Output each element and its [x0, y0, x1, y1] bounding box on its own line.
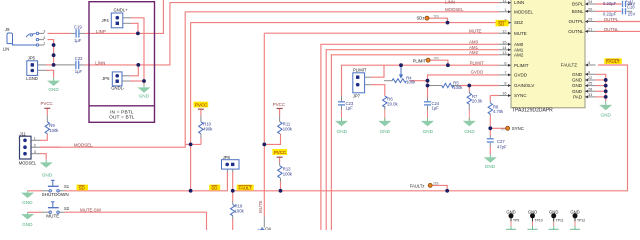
resistor R7 20.0k: [467, 93, 471, 104]
lead C22 left: [56, 64, 75, 66]
lead JP8 right pin drop: [232, 169, 234, 172]
wire LINP from C19 to corner riser x163.4, through purple box: [85, 0, 164, 33]
svg-text:21: 21: [588, 28, 592, 32]
lead MUTE riser to Q4: [263, 217, 265, 228]
svg-text:OUTPL: OUTPL: [568, 19, 584, 24]
power symbol PVCC (R11): [277, 108, 283, 110]
wire JP4 bottom stub to riser x138 down to LINP row: [131, 23, 138, 33]
svg-text:PLIMIT: PLIMIT: [413, 58, 427, 63]
junction LINN at JP6 riser: [136, 63, 140, 67]
wire SD riser x190.6 from SDZ run down to SD switch wire: [190, 23, 192, 191]
svg-text:47pF: 47pF: [497, 144, 507, 149]
lead J11 pin1 stub: [31, 139, 40, 141]
svg-text:LINN: LINN: [514, 0, 524, 5]
lead R4 pot left lead: [384, 80, 392, 82]
resistor R6 20.0k: [383, 96, 387, 107]
svg-text:AM0: AM0: [469, 40, 479, 45]
svg-text:J9: J9: [5, 27, 10, 32]
wire J9 sleeve blue wire to pin1: [13, 44, 37, 45]
lead C19 right: [80, 32, 85, 34]
junction SD riser on SD wire: [189, 189, 193, 193]
wire JP5 bottom stub red + GND elbow: [46, 70, 54, 77]
jumper JP7: [353, 73, 365, 93]
lead R5 right lead: [451, 85, 460, 87]
wire AM1 run + riser: [326, 50, 499, 230]
lead R8 top: [489, 101, 491, 104]
wire LINP row from J9 pin3 to C19: [48, 32, 71, 34]
svg-text:2: 2: [34, 144, 36, 148]
wire C22 row: dot to cap, cap to purple box and LINN riser: [54, 64, 56, 66]
lead C27 top: [489, 136, 491, 139]
ground symbol GND (IC right cluster): [599, 101, 612, 110]
lead R11 top: [279, 116, 282, 135]
svg-text:25V: 25V: [628, 12, 636, 17]
wire JP5 top stub red part: [46, 64, 54, 66]
wire JP8 left pin drop red part upper: [226, 172, 228, 176]
yellow highlight label SD mid: [209, 185, 220, 191]
svg-text:SD: SD: [79, 186, 85, 191]
lead R9 top: [46, 115, 48, 122]
svg-text:GND: GND: [22, 222, 33, 227]
purple note box PBTL: [89, 2, 155, 123]
lead R7 bottom: [468, 104, 470, 111]
ground symbol GND (S1): [21, 191, 34, 198]
wire PAD pin33 stub red: [596, 96, 606, 98]
wire R11 elbow down to MUTE riser dot: [264, 135, 280, 145]
svg-text:MODSEL: MODSEL: [19, 161, 37, 166]
lead R7 top: [468, 91, 470, 93]
svg-text:20.0k: 20.0k: [387, 101, 398, 106]
junction PAD pin 33: [604, 95, 608, 99]
svg-text:SDZ: SDZ: [514, 20, 523, 25]
svg-text:100k: 100k: [283, 127, 293, 132]
lead J9 pin3 stub: [39, 32, 44, 34]
IC left pin arrows: [508, 1, 511, 97]
svg-text:14: 14: [502, 46, 506, 50]
wire GND pin22 stub red: [596, 79, 606, 81]
svg-text:FAULTZ: FAULTZ: [561, 63, 578, 68]
wire R13 bottom to FAULT wire: [280, 182, 282, 191]
wire GND pin28 stub red: [596, 90, 606, 92]
svg-text:1: 1: [504, 8, 506, 12]
svg-text:GND: GND: [572, 72, 583, 77]
power symbol PVCC (R13): [277, 156, 283, 158]
svg-text:PVCC: PVCC: [41, 101, 53, 106]
svg-text:GND: GND: [485, 164, 496, 169]
svg-text:JP6: JP6: [102, 76, 110, 81]
lead C23 top: [341, 96, 343, 102]
wire SYNC pin row to R8 column: [490, 95, 499, 97]
svg-text:GNDL-: GNDL-: [111, 85, 125, 90]
svg-text:OUTNL: OUTNL: [568, 29, 584, 34]
wire MODSEL riser x185.2: [184, 12, 186, 145]
potentiometer R4 100k body: [392, 79, 406, 83]
resistor R18 100k: [231, 205, 235, 216]
wire PLIMIT run to IC pin 6 with C23 drop: [342, 65, 500, 95]
svg-text:4: 4: [43, 36, 45, 40]
svg-text:1: 1: [34, 137, 36, 141]
wire R8 column top: [489, 96, 491, 101]
connector J9 jack body: [7, 33, 13, 44]
resistor R11 100k: [278, 122, 282, 134]
lead C18 right: [627, 10, 632, 12]
junction R13 on FAULT wire: [279, 189, 283, 193]
wire TP5 elbow: [430, 60, 448, 65]
junction TP3 on SDZ wire: [446, 21, 450, 25]
junction GNDL- node: [142, 79, 146, 83]
IC U1 TPA3129D2DAPR body: [511, 0, 585, 108]
svg-text:3: 3: [34, 150, 36, 154]
wire R9 bottom to J11 pin1: [40, 135, 47, 141]
junction C22 row: [52, 63, 56, 67]
wire MUTE-SW wire from S2 with corner down at x206.5: [65, 212, 207, 230]
switch S2: [48, 202, 59, 214]
svg-text:GND: GND: [22, 200, 33, 205]
potentiometer R4 wiper arrow: [400, 65, 403, 77]
junction SD riser / R10 tap: [189, 143, 193, 147]
wire OUTPL row: [596, 21, 640, 23]
wire OUTNL row: [596, 30, 640, 32]
svg-text:BSNL: BSNL: [572, 9, 584, 14]
wire BSNL row to C18: [596, 10, 622, 12]
svg-text:MODSEL: MODSEL: [514, 9, 534, 14]
svg-text:SDz: SDz: [417, 16, 425, 21]
wire R11 column PVCC stub: [279, 109, 281, 116]
svg-text:2: 2: [504, 19, 506, 23]
svg-text:AM0: AM0: [514, 42, 524, 47]
lead JP6 bottom stub: [122, 80, 130, 82]
wire SDZ run from riser to IC pin 2: [191, 22, 499, 24]
svg-text:GAIN/SLV: GAIN/SLV: [514, 83, 534, 88]
wire C27 bottom to GND: [489, 147, 491, 155]
test point TP10: [528, 213, 538, 230]
svg-text:13: 13: [502, 51, 506, 55]
svg-text:BSPL: BSPL: [572, 2, 584, 7]
yellow highlight label FAULT near IC pin 3: [604, 58, 622, 64]
wire JP7 bottom stub riser down to R6: [371, 85, 385, 96]
svg-text:MODSEL: MODSEL: [445, 7, 464, 12]
wire R4 pot right terminal to GVDD column: [410, 80, 428, 82]
svg-text:GND: GND: [139, 94, 150, 99]
junction GND pin 22: [604, 78, 608, 82]
svg-text:IN = PBTL: IN = PBTL: [110, 109, 134, 115]
svg-text:1μF: 1μF: [74, 38, 82, 43]
svg-text:MUTE: MUTE: [258, 200, 263, 213]
junction SYNC/C27/TP7 node: [488, 126, 492, 130]
svg-text:100k: 100k: [235, 209, 245, 214]
svg-text:GND: GND: [423, 129, 434, 134]
wire S1 left lead to GND: [28, 190, 42, 192]
svg-text:22: 22: [588, 76, 592, 80]
svg-text:FAULTz: FAULTz: [410, 183, 425, 188]
lead JP4 top stub: [123, 17, 131, 19]
test point TP6: [428, 183, 432, 187]
svg-text:PVCC: PVCC: [195, 103, 207, 108]
yellow highlight label SD at S1: [77, 185, 89, 191]
jumper JP5: [27, 61, 38, 76]
wire TP6 elbow: [432, 185, 447, 190]
svg-text:GVDD: GVDD: [471, 70, 484, 75]
ground symbol GND (S2): [21, 212, 34, 219]
lead JP8 left pin drop: [226, 169, 228, 172]
svg-text:GNDL+: GNDL+: [114, 7, 129, 12]
wire S2 left lead to GND: [28, 211, 42, 213]
svg-text:PLIMIT: PLIMIT: [514, 63, 529, 68]
wire JP6 top stub riser up to LINN row: [130, 65, 138, 76]
jumper JP8: [222, 160, 240, 169]
svg-text:TP10: TP10: [535, 218, 543, 222]
yellow highlight label SD near IC pin 2: [496, 20, 509, 26]
wire R13 column PVCC stub: [279, 157, 281, 162]
junction GND pin 28: [604, 89, 608, 93]
wire FAULT run from JP8 dot to right corner and up to FAULTZ pin: [233, 65, 628, 191]
lead JP6 top stub: [122, 75, 130, 77]
svg-text:AM2: AM2: [469, 50, 479, 55]
junction input column mid: [52, 53, 56, 57]
lead C19 left: [71, 32, 76, 34]
wire GVDD run + column down: [428, 75, 500, 98]
yellow highlight label PVCC at R10: [194, 102, 209, 108]
lead JP7 bottom stub: [365, 84, 371, 86]
svg-text:100k: 100k: [406, 80, 416, 85]
lead R10 bottom: [200, 134, 202, 138]
wire AM0 run + riser: [321, 44, 499, 230]
svg-text:MUTE: MUTE: [514, 31, 527, 36]
svg-text:20.0k: 20.0k: [472, 99, 483, 104]
svg-text:12: 12: [502, 29, 506, 33]
lead C27 bottom: [489, 143, 491, 147]
lead R18 top: [232, 201, 234, 205]
svg-text:28: 28: [588, 87, 592, 91]
wire TP3 elbow: [429, 18, 448, 22]
wire LINN top run to IC pin LINN: [170, 2, 499, 4]
svg-text:TP9: TP9: [513, 218, 519, 222]
power symbol PVCC (R10): [198, 108, 204, 110]
power symbol PVCC (R9): [44, 107, 50, 109]
svg-text:S1: S1: [64, 184, 70, 189]
junction GND pin 25: [604, 84, 608, 88]
capacitor C23: [338, 102, 345, 105]
junction MUTE riser / R11 tap: [262, 143, 266, 147]
lead J11 pin3 stub: [31, 153, 40, 155]
lead R13 top: [279, 162, 282, 182]
resistor R8 4.70k: [488, 103, 492, 114]
lead R5 left lead: [428, 85, 442, 87]
svg-text:GND: GND: [42, 173, 53, 178]
wire R18 below dot: [232, 191, 234, 201]
lead JP5 bottom stub: [38, 69, 46, 71]
svg-text:15: 15: [502, 40, 506, 44]
capacitor C18 bootstrap: [623, 8, 626, 14]
ground symbol GND (J11 pin3): [40, 160, 53, 168]
lead C23 bottom: [341, 106, 343, 110]
svg-text:Q4: Q4: [265, 227, 271, 230]
lead C22 right: [79, 64, 84, 66]
svg-text:GND: GND: [572, 89, 583, 94]
svg-text:MUTE: MUTE: [46, 213, 59, 218]
svg-text:LINP: LINP: [96, 29, 106, 34]
svg-text:OUTPL: OUTPL: [604, 17, 619, 22]
lead S1 left contact: [42, 190, 49, 192]
svg-text:1μF: 1μF: [75, 69, 83, 74]
svg-text:0.22μF: 0.22μF: [603, 1, 617, 6]
svg-text:LGND: LGND: [26, 76, 38, 81]
svg-text:FAULT: FAULT: [239, 186, 253, 191]
svg-text:LIN: LIN: [3, 47, 10, 52]
svg-text:GND: GND: [506, 209, 515, 214]
wire J9 pin4 row bend down to pin1 row: [48, 40, 54, 45]
svg-text:GND: GND: [380, 129, 391, 134]
lead JP5 top stub: [38, 64, 46, 66]
wire TP7 spur: [490, 127, 505, 129]
lead C24 top: [427, 98, 429, 101]
svg-text:1μF: 1μF: [346, 106, 354, 111]
test point TP3: [425, 16, 429, 20]
svg-text:6: 6: [504, 61, 506, 65]
svg-text:FAULT: FAULT: [606, 59, 620, 64]
svg-text:499k: 499k: [203, 127, 213, 132]
svg-text:JP5: JP5: [28, 56, 36, 61]
test point TP5: [426, 58, 430, 62]
svg-text:JP4: JP4: [102, 18, 110, 23]
lead IC left pin stubs: [499, 3, 511, 96]
svg-text:SYNC: SYNC: [514, 93, 527, 98]
svg-text:1: 1: [43, 41, 45, 45]
svg-text:23: 23: [588, 18, 592, 22]
svg-text:GND: GND: [48, 87, 59, 92]
wire R5 row red part to GAIN/SLV pin: [460, 85, 499, 87]
junction R4 on GVDD column: [426, 79, 430, 83]
ground symbol GND (R6): [378, 110, 391, 126]
wire GND cluster right of IC: pin9 corner + vertical: [596, 74, 606, 101]
svg-text:TP12: TP12: [577, 218, 585, 222]
lead S2 right contact: [59, 211, 64, 213]
lead J9 pin4 stub: [39, 39, 44, 41]
wire R10 elbow up: [200, 138, 202, 144]
svg-text:GND: GND: [570, 209, 579, 214]
wire MODSEL jog at bottom: [40, 144, 201, 147]
svg-text:AM2: AM2: [514, 52, 524, 57]
junction R5 on GVDD column: [426, 84, 430, 88]
svg-text:JP8: JP8: [223, 155, 231, 160]
wire JP7 top stub riser to PLIMIT wire: [371, 65, 384, 77]
svg-text:3: 3: [43, 30, 45, 34]
wire JP6 bottom stub to junction x144: [130, 80, 144, 82]
svg-text:SD: SD: [211, 186, 217, 191]
ground symbol GND (R7): [463, 110, 476, 126]
resistor R5 100k horizontal: [442, 83, 454, 87]
svg-text:TP11: TP11: [556, 218, 564, 222]
wire SD switch wire from S1 to JP8 left pin: [65, 176, 228, 191]
capacitor C17 bootstrap: [623, 1, 626, 7]
wire MUTE run from riser corner to IC pin 12: [264, 32, 499, 34]
svg-text:GND: GND: [549, 209, 558, 214]
resistor R10 499k: [199, 122, 203, 134]
svg-text:11: 11: [503, 0, 507, 3]
svg-text:9: 9: [588, 70, 590, 74]
svg-text:3: 3: [588, 61, 590, 65]
lead IC right pin stubs: [585, 4, 596, 97]
J9 switch contacts: [26, 32, 39, 46]
yellow highlight label FAULT mid: [237, 185, 254, 191]
wire JP8 right pin drop: [232, 172, 234, 191]
svg-text:C18: C18: [627, 5, 635, 10]
capacitor C27: [487, 139, 494, 142]
svg-text:MUTE: MUTE: [469, 29, 482, 34]
wire GND pin25 stub red: [596, 85, 606, 87]
svg-text:SHUTDOWN: SHUTDOWN: [42, 192, 69, 197]
ground symbol GND (C27): [484, 155, 497, 163]
wire GNDL- junction down to GND: [143, 81, 145, 85]
wire vertical x53.6 from pin1 row down to C22 row: [53, 45, 55, 65]
svg-text:LINN: LINN: [445, 0, 455, 4]
ground symbol GND (JP5 / LGND): [47, 78, 60, 86]
resistor R13 100k: [278, 166, 282, 178]
IC right pin arrows: [585, 3, 588, 99]
yellow highlight label PVCC at R13: [272, 149, 287, 155]
test point TP11: [549, 213, 559, 230]
jumper JP4: [111, 13, 123, 28]
svg-text:100k: 100k: [283, 171, 293, 176]
capacitor C22: [76, 61, 79, 69]
svg-text:S2: S2: [64, 206, 70, 211]
svg-text:MODSEL: MODSEL: [74, 142, 93, 147]
svg-text:TPA3129D2DAPR: TPA3129D2DAPR: [512, 108, 553, 114]
svg-text:24: 24: [588, 0, 592, 4]
svg-text:20: 20: [588, 7, 592, 11]
wire R7 top connection: [468, 86, 470, 92]
svg-text:C19: C19: [74, 25, 82, 30]
lead J9 pin1 stub: [39, 44, 44, 46]
test point TP7: [506, 126, 510, 130]
wire MODSEL from J11 pin2: [40, 146, 60, 148]
svg-text:C22: C22: [75, 56, 83, 61]
junction LINP at JP4 drop: [136, 32, 140, 36]
lead JP7 top stub: [365, 76, 371, 78]
junction TP5 on PLIMIT wire: [446, 63, 450, 67]
junction R5/R7 node: [467, 84, 471, 88]
lead C17 right: [627, 3, 632, 5]
ground symbol GND (C23): [335, 110, 348, 126]
svg-text:OUTNL: OUTNL: [604, 27, 619, 32]
wire R9 column: PVCC stub down to resistor: [46, 108, 48, 115]
svg-text:GND: GND: [572, 78, 583, 83]
connector J11: [20, 136, 32, 159]
switch S1: [48, 180, 59, 192]
lead R6 bottom: [384, 106, 386, 110]
svg-text:25: 25: [588, 82, 592, 86]
ground symbol GND (C24): [421, 110, 434, 126]
svg-text:GND: GND: [572, 83, 583, 88]
wire R18 bottom to image edge: [232, 219, 234, 230]
test point TP9: [506, 213, 516, 230]
capacitor C19: [76, 29, 79, 37]
svg-text:PLIMIT: PLIMIT: [470, 61, 484, 66]
lead R10 top: [200, 116, 202, 122]
svg-text:JP7: JP7: [353, 94, 361, 99]
svg-text:4.70k: 4.70k: [493, 109, 504, 114]
svg-text:100k: 100k: [49, 128, 59, 133]
svg-text:GVDD: GVDD: [514, 73, 528, 78]
svg-text:GND: GND: [600, 112, 611, 117]
wire J11 pin3 GND elbow: [40, 154, 46, 160]
wire JP4 top stub to riser x144 down to GNDL- junction: [131, 18, 144, 81]
lead R18 bottom: [232, 216, 234, 220]
wire AM2 run + riser: [331, 55, 499, 230]
wire R8 bottom to junction: [489, 116, 491, 136]
test point TP12: [570, 213, 580, 230]
wire BSPL row to C17: [596, 3, 622, 5]
